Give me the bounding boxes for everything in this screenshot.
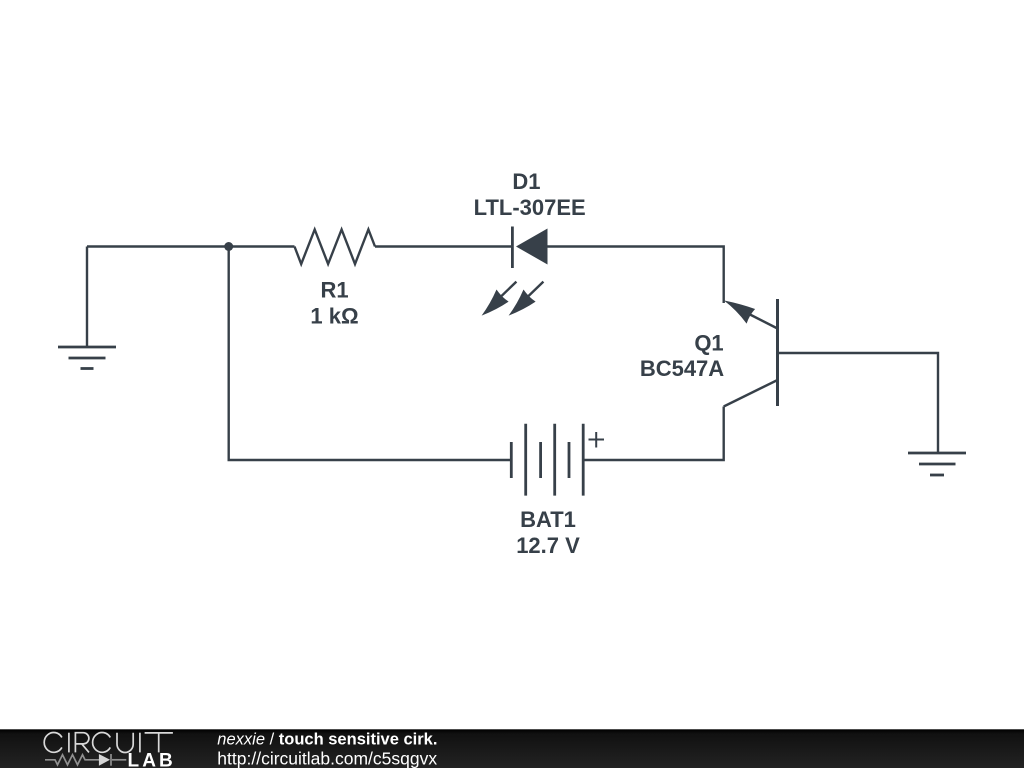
svg-text:BAT1: BAT1 bbox=[520, 507, 576, 532]
svg-text:nexxie / touch sensitive cirk.: nexxie / touch sensitive cirk. bbox=[217, 731, 437, 749]
LED arrow 1 bbox=[482, 282, 517, 316]
wire junction to resistor bbox=[229, 245, 295, 247]
wire base to right ground bbox=[778, 353, 939, 453]
battery plus sign bbox=[589, 432, 605, 448]
LED arrow 2 bbox=[509, 282, 544, 316]
svg-text:R1: R1 bbox=[320, 278, 348, 303]
logo CIRCUIT bbox=[44, 733, 173, 753]
wire LED to transistor top corner bbox=[548, 247, 724, 304]
ground GND left bbox=[58, 347, 116, 369]
svg-text:12.7 V: 12.7 V bbox=[516, 533, 580, 558]
wire battery left to junction bbox=[229, 247, 512, 461]
logo doodle wire with resistor bbox=[45, 754, 126, 766]
transistor Q1 emitter diagonal with arrow bbox=[724, 300, 778, 328]
diode D1 triangle bbox=[516, 229, 548, 265]
svg-text:Q1: Q1 bbox=[694, 331, 723, 356]
wire left vertical down to ground bbox=[86, 247, 88, 348]
svg-text:http://circuitlab.com/c5sqgvx: http://circuitlab.com/c5sqgvx bbox=[217, 748, 437, 768]
wire transistor bottom to battery bbox=[583, 407, 724, 461]
svg-text:D1: D1 bbox=[512, 169, 540, 194]
logo diode triangle bbox=[99, 754, 110, 766]
svg-text:BC547A: BC547A bbox=[640, 356, 724, 381]
transistor Q1 bar bbox=[776, 299, 779, 406]
svg-text:1 kΩ: 1 kΩ bbox=[310, 304, 358, 329]
diode D1 cathode bar bbox=[511, 227, 514, 269]
resistor R1 zigzag bbox=[295, 230, 376, 265]
svg-text:LTL-307EE: LTL-307EE bbox=[474, 195, 586, 220]
transistor Q1 collector diagonal bbox=[724, 380, 778, 407]
battery BAT1 plates bbox=[511, 424, 583, 496]
svg-text:LAB: LAB bbox=[128, 750, 176, 768]
wire left horizontal to junction bbox=[87, 245, 229, 247]
ground GND right bbox=[908, 453, 966, 475]
junction node dot bbox=[224, 242, 233, 251]
wire resistor to LED bbox=[375, 245, 512, 247]
